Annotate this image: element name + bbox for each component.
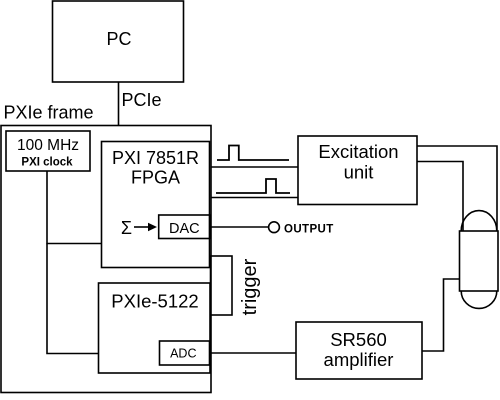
svg-text:PXI clock: PXI clock	[21, 156, 73, 168]
svg-text:PCIe: PCIe	[122, 90, 162, 110]
svg-text:PC: PC	[106, 29, 131, 49]
svg-text:Excitation: Excitation	[318, 141, 398, 162]
svg-text:PXIe frame: PXIe frame	[4, 103, 94, 123]
svg-text:amplifier: amplifier	[324, 349, 394, 370]
svg-text:ADC: ADC	[170, 347, 196, 361]
svg-text:SR560: SR560	[330, 329, 387, 350]
svg-text:OUTPUT: OUTPUT	[284, 223, 334, 235]
svg-text:DAC: DAC	[169, 221, 200, 237]
svg-text:PXIe-5122: PXIe-5122	[111, 291, 198, 312]
svg-text:trigger: trigger	[239, 258, 261, 315]
svg-text:unit: unit	[344, 161, 374, 182]
svg-text:100 MHz: 100 MHz	[17, 137, 79, 154]
svg-text:FPGA: FPGA	[131, 168, 180, 188]
svg-text:Σ: Σ	[121, 218, 132, 238]
svg-text:PXI 7851R: PXI 7851R	[112, 148, 199, 168]
